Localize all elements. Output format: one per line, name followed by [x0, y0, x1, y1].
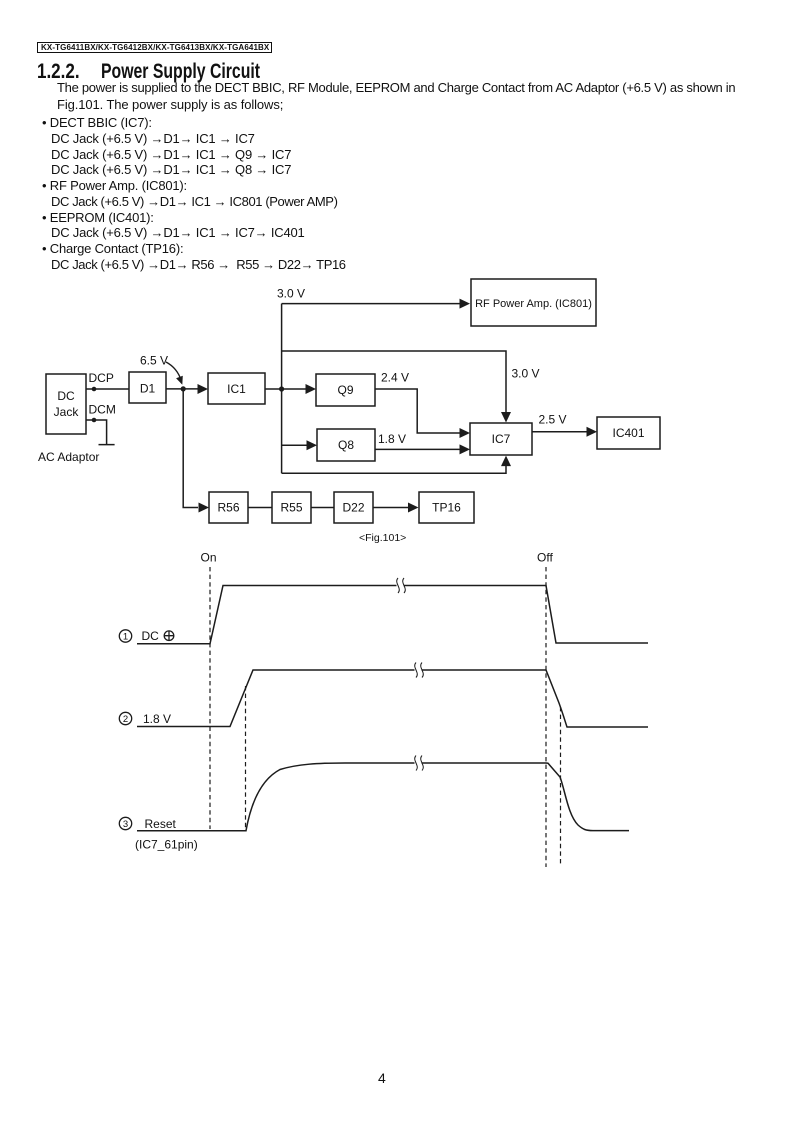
arrowhead into IC401 — [587, 427, 598, 437]
svg-text:D22: D22 — [342, 501, 364, 515]
junction node 6.5V after D1 — [181, 386, 186, 391]
junction dot DCM — [92, 418, 97, 423]
arrowhead into RF Power Amp — [460, 299, 471, 309]
diode D22 — [334, 492, 373, 523]
wire IC7 output 2.5V to IC401 — [532, 431, 587, 433]
diode D1 — [129, 372, 166, 403]
arrowhead into IC7 left 1.8V — [460, 444, 471, 454]
arrowhead into IC1 — [198, 384, 209, 394]
dashed line Off — [545, 567, 547, 867]
svg-text:2.5 V: 2.5 V — [539, 413, 567, 427]
arrowhead into IC7 left 2.4V — [460, 428, 471, 438]
arrowhead into IC7 bottom — [501, 456, 511, 467]
break mark waveform 3 — [415, 756, 424, 771]
regulator IC7 — [470, 423, 532, 455]
page number — [378, 1070, 386, 1086]
waveform 1 DC supply — [137, 586, 648, 644]
arrowhead into TP16 — [408, 503, 419, 513]
arrowhead into IC7 top — [501, 412, 511, 423]
dashed line On — [209, 567, 211, 829]
wire R55 to D22 — [311, 507, 334, 509]
svg-text:DC: DC — [57, 389, 75, 403]
wire DCM stub — [86, 420, 107, 444]
regulator IC1 — [208, 373, 265, 404]
DC plus symbol — [164, 631, 174, 641]
transistor Q8 — [317, 429, 375, 461]
svg-text:R55: R55 — [280, 501, 302, 515]
wire R56 to R55 — [248, 507, 272, 509]
break mark waveform 1 — [397, 578, 406, 593]
svg-text:2.4 V: 2.4 V — [381, 371, 409, 385]
ground bar — [99, 444, 115, 446]
intro paragraph — [57, 80, 735, 114]
svg-text:1.8 V: 1.8 V — [378, 432, 406, 446]
svg-text:1.8 V: 1.8 V — [143, 712, 171, 726]
wire 3.0V to RF Power Amp — [282, 303, 460, 305]
svg-text:Reset: Reset — [145, 817, 177, 831]
wire Q8 output 1.8V to IC7 — [375, 448, 460, 450]
svg-text:DCM: DCM — [89, 403, 116, 417]
dashed line On second — [245, 686, 247, 831]
circled 3 — [119, 817, 131, 829]
resistor R55 — [272, 492, 311, 523]
wire D22 to TP16 — [373, 507, 408, 509]
svg-text:DCP: DCP — [89, 371, 114, 385]
wire IC1 output to Q9 — [265, 388, 306, 390]
arrowhead of curved 6.5V pointer — [176, 376, 183, 385]
section heading 1.2.2. — [37, 60, 80, 84]
svg-text:DC: DC — [142, 629, 160, 643]
circled 2 — [119, 712, 131, 724]
svg-text:D1: D1 — [140, 382, 156, 396]
arrowhead into Q9 — [306, 384, 317, 394]
arrowhead into R56 — [199, 503, 210, 513]
curved arrow 6.5V pointer — [166, 362, 181, 381]
model header box — [37, 42, 272, 53]
dashed line Off second — [560, 707, 562, 866]
wire bottom feedback into IC7 — [282, 466, 506, 473]
svg-text:2: 2 — [123, 714, 128, 725]
svg-text:AC Adaptor: AC Adaptor — [38, 450, 99, 464]
svg-text:On: On — [201, 551, 217, 565]
svg-text:Jack: Jack — [54, 405, 80, 419]
circled 1 — [119, 630, 131, 642]
wire DCP from DC Jack to D1 — [86, 388, 129, 390]
resistor R56 — [209, 492, 248, 523]
wire D1 to IC1 — [166, 388, 198, 390]
block IC401 — [597, 417, 660, 449]
svg-text:Off: Off — [537, 551, 553, 565]
svg-text:Q9: Q9 — [337, 383, 353, 397]
svg-text:RF Power Amp. (IC801): RF Power Amp. (IC801) — [475, 298, 592, 310]
wire Q9 output 2.4V to IC7 — [375, 389, 460, 433]
svg-text:3.0 V: 3.0 V — [512, 367, 540, 381]
wire 3.0V branch to IC7 top — [282, 351, 506, 413]
junction node IC1 output — [279, 386, 284, 391]
block DC Jack — [46, 374, 86, 434]
test point TP16 — [419, 492, 474, 523]
waveform 3 Reset — [137, 763, 629, 831]
arrowhead into Q8 — [307, 440, 318, 450]
section heading title — [101, 60, 260, 84]
bullet list of supply paths — [42, 115, 346, 273]
block RF Power Amp (IC801) — [471, 279, 596, 326]
svg-text:IC401: IC401 — [612, 426, 644, 440]
wire bus to Q8 — [282, 444, 307, 446]
svg-text:(IC7_61pin): (IC7_61pin) — [135, 838, 198, 852]
waveform 2 1.8V — [137, 670, 648, 727]
svg-text:TP16: TP16 — [432, 501, 461, 515]
svg-text:3: 3 — [123, 819, 128, 830]
transistor Q9 — [316, 374, 375, 406]
svg-text:3.0 V: 3.0 V — [277, 287, 305, 301]
svg-text:R56: R56 — [217, 501, 239, 515]
main vertical bus — [281, 304, 283, 474]
svg-text:IC7: IC7 — [492, 432, 511, 446]
junction dot DCP — [92, 387, 97, 392]
svg-text:6.5 V: 6.5 V — [140, 354, 168, 368]
svg-text:1: 1 — [123, 632, 128, 643]
break mark waveform 2 — [415, 663, 424, 678]
svg-text:<Fig.101>: <Fig.101> — [359, 532, 406, 544]
svg-text:Q8: Q8 — [338, 438, 354, 452]
svg-text:IC1: IC1 — [227, 382, 246, 396]
wire junction 6.5V down to R56 row — [183, 389, 198, 508]
